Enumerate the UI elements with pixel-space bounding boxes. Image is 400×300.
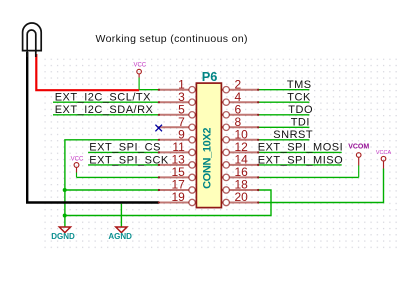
svg-text:EXT_SPI_CS: EXT_SPI_CS	[89, 142, 161, 154]
svg-text:20: 20	[235, 190, 249, 204]
svg-text:SNRST: SNRST	[273, 129, 313, 141]
svg-text:TDO: TDO	[288, 104, 313, 116]
svg-text:AGND: AGND	[108, 232, 132, 241]
svg-text:19: 19	[171, 190, 185, 204]
svg-text:DGND: DGND	[51, 232, 75, 241]
svg-text:CONN_10X2: CONN_10X2	[202, 128, 214, 189]
svg-text:EXT_I2C_SDA/RX: EXT_I2C_SDA/RX	[55, 104, 154, 116]
svg-text:EXT_I2C_SCL/TX: EXT_I2C_SCL/TX	[55, 92, 151, 104]
svg-text:TCK: TCK	[287, 92, 311, 104]
svg-text:EXT_SPI_MISO: EXT_SPI_MISO	[258, 154, 343, 166]
svg-text:VCC: VCC	[71, 157, 84, 163]
svg-text:TDI: TDI	[291, 117, 310, 129]
svg-text:EXT_SPI_SCK: EXT_SPI_SCK	[89, 154, 169, 166]
svg-text:TMS: TMS	[287, 79, 312, 91]
svg-text:VCCA: VCCA	[376, 150, 392, 156]
svg-text:VCOM: VCOM	[348, 143, 369, 150]
svg-text:EXT_SPI_MOSI: EXT_SPI_MOSI	[258, 142, 343, 154]
svg-text:P6: P6	[202, 69, 218, 84]
svg-text:Working setup (continuous on): Working setup (continuous on)	[96, 33, 248, 45]
svg-text:VCC: VCC	[133, 63, 146, 69]
